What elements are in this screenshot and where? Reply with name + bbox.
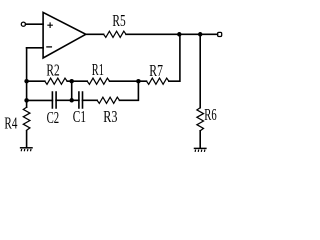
wire inverting input to left rail [27,47,43,49]
wire R4 to ground [26,131,28,147]
svg-text:R5: R5 [112,11,125,30]
resistor R1 [87,78,109,84]
svg-text:R7: R7 [149,61,163,80]
resistor R3 [97,97,119,103]
minus marker [47,46,52,48]
wire R2 to R1 [67,80,87,82]
capacitor C2 [52,92,56,108]
resistor R4 [23,107,30,130]
capacitor C1 [79,92,83,108]
svg-text:R6: R6 [204,105,216,124]
resistor R5 [104,31,126,37]
wire op-amp output [86,33,104,35]
ground (R6) [195,148,206,152]
svg-text:R1: R1 [92,60,104,79]
input terminal [21,22,25,26]
resistor R7 [147,78,169,84]
wire R6 drop [199,34,201,107]
node D (mid rail bottom) [69,98,74,103]
node C (mid rail top) [69,79,74,84]
svg-text:R2: R2 [46,61,59,80]
ground (R4) [21,148,32,152]
wire C1 to R3 [83,99,98,101]
node G (output line to R6) [198,32,203,37]
plus marker [48,23,52,27]
wire R3 up to node E [120,81,139,100]
node F (output line to R7) [177,32,182,37]
svg-text:R4: R4 [4,113,17,132]
wire R1 to node E [110,80,147,82]
wire input to op-amp [26,23,44,25]
wire C2 to node D [56,99,79,101]
op-amp U1 [43,12,86,58]
wire R7 up to output line [169,34,180,81]
node E (R1/R7/R3 junction) [136,79,141,84]
wire left rail down [26,48,28,107]
wire R6 to ground [199,131,201,148]
resistor R6 [197,108,204,131]
node B (rail to C2) [24,98,29,103]
svg-text:C1: C1 [73,107,86,126]
svg-text:C2: C2 [47,108,60,127]
resistor R2 [45,78,67,84]
svg-text:R3: R3 [103,107,117,126]
wire mid rail [71,81,73,100]
output terminal [218,32,222,36]
wire R5 to output terminal [126,33,218,35]
wire C row left: node B to C2 [27,99,53,101]
node A (rail to R2) [24,79,29,84]
wire to R2 [27,80,45,82]
